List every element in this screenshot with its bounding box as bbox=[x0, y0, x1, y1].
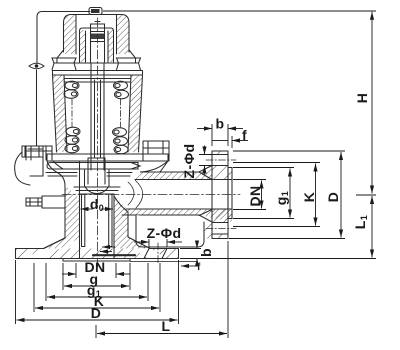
outlet flange raised face bbox=[228, 168, 232, 219]
cap outer contour bbox=[64, 15, 130, 53]
svg-text:H: H bbox=[354, 93, 370, 104]
screw top mark bbox=[93, 22, 103, 25]
drain bolt hex bbox=[26, 198, 42, 206]
bottom flange plate bbox=[16, 249, 179, 259]
drain boss bbox=[42, 196, 65, 208]
stem tube bbox=[91, 63, 104, 170]
seal wire lower run bbox=[36, 70, 38, 146]
disc hub bbox=[88, 158, 105, 184]
bottom flange hole bbox=[144, 249, 167, 259]
DN right extensions bbox=[233, 180, 266, 210]
outlet flange holes bbox=[212, 155, 228, 235]
cap inner contour bbox=[76, 15, 117, 54]
K extensions bottom bbox=[34, 263, 160, 312]
outlet centerline tick right bbox=[356, 194, 376, 196]
adjusting screw jam nut bbox=[91, 34, 104, 40]
dimension g bbox=[64, 285, 129, 287]
inlet pipe right wall hatch bbox=[114, 196, 150, 249]
svg-text:L: L bbox=[162, 318, 171, 334]
chamber left wall bbox=[53, 75, 68, 152]
svg-text:D: D bbox=[325, 192, 341, 203]
f bottom dimension bbox=[181, 265, 196, 267]
spring coils upper right bbox=[114, 81, 129, 99]
cap skirt nut right bbox=[117, 58, 141, 70]
bottom flange raised face bbox=[63, 259, 130, 262]
bottom flange hatch bbox=[16, 249, 179, 259]
adjusting screw stem bbox=[91, 24, 105, 62]
svg-text:Z-Φd: Z-Φd bbox=[181, 144, 197, 179]
seat lip arrows bbox=[102, 246, 115, 248]
spring housing neck inner bbox=[86, 31, 109, 62]
lead seal bbox=[29, 63, 44, 69]
body left inner bbox=[44, 161, 80, 259]
dimension K right bbox=[315, 164, 317, 226]
outlet flange hub column hatch bbox=[204, 222, 212, 239]
disc bbox=[85, 170, 110, 194]
bracket bolt hex bbox=[25, 146, 42, 157]
L left riser bbox=[95, 325, 97, 338]
K right extensions bbox=[233, 163, 320, 227]
knob on cap top bbox=[89, 8, 102, 15]
spring coils lower right bbox=[113, 128, 129, 154]
b top extensions bbox=[212, 124, 228, 146]
dimension g1 right bbox=[289, 169, 291, 218]
bonnet flange bolt left bbox=[26, 146, 52, 160]
bracket curve bbox=[15, 152, 30, 185]
cap skirt bbox=[57, 50, 136, 63]
spring centerline right bbox=[120, 99, 122, 127]
dimension f top bbox=[232, 140, 248, 142]
d0 dimension arrows bbox=[81, 208, 94, 210]
f top extension bbox=[231, 136, 233, 148]
body web window bbox=[136, 215, 204, 247]
outlet pipe top wall hatch bbox=[135, 166, 212, 180]
dimension DN right bbox=[261, 181, 263, 209]
spring coils lower left bbox=[65, 127, 80, 153]
svg-text:K: K bbox=[301, 192, 317, 203]
outlet bolt hole centerline top bbox=[206, 159, 236, 161]
seal wire bbox=[37, 12, 90, 64]
outlet flange plate bbox=[212, 151, 228, 239]
cap right wall hatch bbox=[117, 15, 130, 55]
outlet pipe bottom wall bbox=[122, 215, 212, 222]
outlet pipe top bore line bbox=[135, 179, 232, 181]
inlet pipe right wall bbox=[114, 194, 150, 259]
spring top seat bbox=[64, 79, 131, 83]
Z-phi-d right arrows bbox=[204, 146, 206, 155]
dimension L bbox=[97, 333, 227, 335]
dimension D right bbox=[340, 152, 342, 238]
svg-text:D: D bbox=[91, 305, 102, 321]
chamber top plate bbox=[53, 71, 143, 76]
svg-text:f: f bbox=[242, 127, 247, 143]
cap skirt nut left bbox=[52, 58, 76, 70]
outlet flange plate hatch bbox=[212, 151, 232, 239]
bonnet flange band bbox=[47, 154, 168, 161]
chamber left wall hatch bbox=[53, 75, 68, 152]
seat ring bbox=[74, 187, 120, 194]
outlet bore rib bbox=[128, 180, 143, 208]
b bottom dimension bbox=[196, 241, 198, 249]
H top extension line bbox=[103, 10, 376, 12]
chamber right wall hatch bbox=[128, 75, 143, 152]
main centerline bbox=[97, 18, 99, 268]
body right outer bbox=[140, 161, 212, 172]
svg-text:Z-Φd: Z-Φd bbox=[147, 225, 182, 241]
g1 right extensions bbox=[233, 168, 294, 219]
dimension DN bottom bbox=[62, 273, 76, 275]
spring housing neck hatch right bbox=[108, 30, 114, 62]
svg-text:DN: DN bbox=[247, 185, 263, 206]
outlet pipe bottom wall hatch bbox=[122, 209, 232, 222]
dimension H bbox=[371, 12, 373, 194]
inlet bolt hole centerline bbox=[157, 243, 159, 264]
spring centerline left bbox=[71, 99, 73, 127]
dimension K bottom bbox=[35, 307, 159, 309]
spring housing neck hatch left bbox=[80, 30, 86, 62]
dimension D bottom bbox=[17, 319, 178, 321]
D extensions bottom bbox=[16, 260, 179, 324]
Z-phi-d bottom dimension bbox=[134, 241, 149, 243]
g1 extensions bottom bbox=[46, 263, 148, 301]
dimension b top bbox=[197, 128, 212, 130]
outlet bolt hole centerline bottom bbox=[206, 228, 236, 230]
seat tube bbox=[82, 194, 113, 247]
outlet face extension down bbox=[227, 241, 229, 338]
spring coils upper left bbox=[64, 81, 79, 98]
spring housing neck bbox=[80, 28, 114, 62]
dimension L1 bbox=[371, 196, 373, 258]
chamber right wall bbox=[128, 75, 143, 152]
bottom face extension line bbox=[180, 258, 376, 260]
DN bottom extensions bbox=[76, 263, 116, 278]
lever arm bbox=[47, 163, 138, 170]
lever right clevis bbox=[131, 163, 140, 170]
body left outer bbox=[44, 161, 66, 249]
D right extensions bbox=[229, 151, 345, 239]
outlet flange gussets bbox=[199, 172, 212, 216]
disc holder guide plates bbox=[46, 173, 132, 177]
dimension g1 bottom bbox=[47, 296, 147, 298]
bonnet flange bolt right bbox=[143, 141, 169, 161]
outlet pipe bottom bore line bbox=[126, 208, 232, 210]
svg-text:b: b bbox=[216, 116, 225, 132]
g extensions bbox=[63, 263, 130, 290]
inlet pipe left wall hatch bbox=[44, 186, 80, 249]
outlet centerline bbox=[62, 194, 240, 196]
svg-text:b: b bbox=[198, 248, 214, 257]
lever bracket bbox=[22, 146, 43, 176]
cap left wall hatch bbox=[64, 15, 77, 55]
